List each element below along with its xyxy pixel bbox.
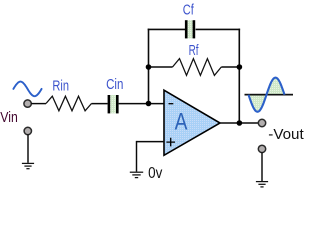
- svg-text:Cf: Cf: [183, 2, 195, 18]
- output wave axis line: [245, 94, 294, 96]
- node: left vertical x Rf: [146, 64, 152, 70]
- ground 0v: [130, 172, 143, 177]
- svg-text:Cin: Cin: [106, 77, 123, 93]
- svg-text:Vin: Vin: [0, 110, 18, 126]
- capacitor Cf: [185, 20, 195, 38]
- wire terminal to Rin: [31, 103, 46, 105]
- output wire from op-amp: [220, 122, 259, 124]
- output ground: [256, 182, 268, 187]
- svg-text:-Vout: -Vout: [268, 127, 303, 143]
- svg-text:Rin: Rin: [52, 78, 69, 94]
- resistor Rin: [46, 96, 92, 111]
- wire output ground terminal down: [261, 152, 263, 181]
- input ground terminal: [24, 127, 31, 134]
- wire op-amp + input: [137, 141, 165, 143]
- wire + input down to ground: [136, 141, 138, 172]
- capacitor Cin: [108, 95, 119, 113]
- feedback right vertical wire: [238, 29, 240, 123]
- wire Rin to Cin: [92, 103, 108, 105]
- Cf top wire left segment: [148, 28, 185, 30]
- op-amp A: [164, 90, 220, 155]
- resistor Rf: [173, 59, 222, 76]
- output sine-wave curve: [249, 78, 285, 112]
- input signal terminal: [24, 100, 31, 107]
- Rf left wire: [149, 66, 173, 68]
- input ground: [22, 163, 34, 168]
- feedback left vertical wire: [148, 29, 150, 104]
- node: output x right vertical: [237, 120, 243, 126]
- Cf top wire right segment: [196, 28, 241, 30]
- node: right vertical x Rf: [237, 64, 243, 70]
- wire input ground terminal down: [27, 134, 29, 162]
- svg-text:0v: 0v: [148, 165, 162, 182]
- output sine-wave icon: [249, 78, 285, 112]
- output signal terminal: [258, 119, 265, 126]
- svg-text:A: A: [175, 109, 188, 136]
- output ground terminal: [258, 145, 265, 152]
- input sine-wave icon: [13, 82, 41, 97]
- wire Cin to op-amp inverting input: [119, 103, 164, 105]
- Rf right wire: [221, 66, 239, 68]
- svg-text:Rf: Rf: [189, 43, 199, 59]
- output wave axis line overlay: [245, 94, 294, 96]
- node: left vertical x input wire: [146, 101, 152, 107]
